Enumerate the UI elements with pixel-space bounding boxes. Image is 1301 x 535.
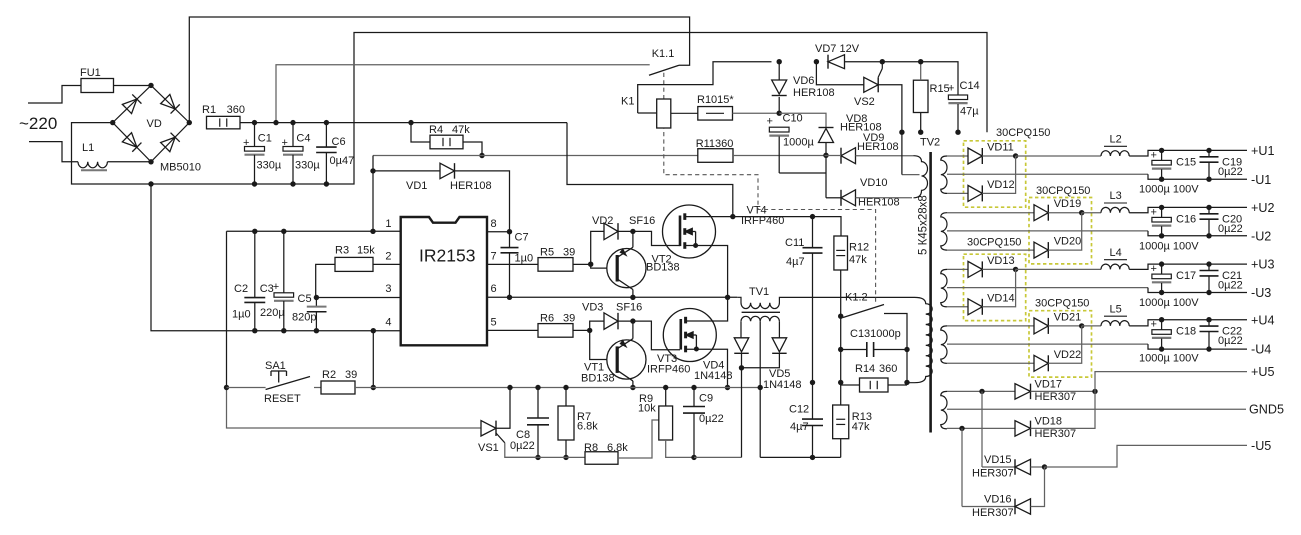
diode VD11 <box>968 148 982 164</box>
node C20 top <box>1206 205 1211 210</box>
svg-text:VD13: VD13 <box>987 255 1015 267</box>
wire VT3 drain lead to midpoint <box>686 297 728 321</box>
wire VD8 column down to VD10 <box>825 155 827 198</box>
svg-text:VD14: VD14 <box>987 292 1015 304</box>
svg-text:TV2: TV2 <box>920 137 940 149</box>
wire VD9 anode to aux winding top <box>856 155 914 157</box>
wire winding 5 bottom lead <box>947 427 1015 429</box>
svg-text:+U2: +U2 <box>1251 201 1274 215</box>
node C22 top <box>1206 317 1211 322</box>
svg-text:SA1: SA1 <box>265 360 286 372</box>
resistor R15 <box>913 80 928 112</box>
svg-text:HER307: HER307 <box>972 468 1014 480</box>
wire R7 top <box>565 388 567 407</box>
svg-text:39: 39 <box>345 369 357 381</box>
diode VD12 <box>968 185 982 201</box>
svg-text:1: 1 <box>385 218 391 230</box>
svg-text:R5: R5 <box>540 247 554 259</box>
svg-text:+U4: +U4 <box>1251 313 1274 327</box>
wire L1 to bridge bottom <box>107 161 151 163</box>
svg-text:VD10: VD10 <box>860 177 888 189</box>
wire VD1 anode <box>373 170 440 172</box>
svg-text:+: + <box>282 137 288 149</box>
node C1 top <box>252 120 257 125</box>
wire mains top stub <box>28 86 81 104</box>
wire C10 top node to VD8 cathode <box>779 113 826 127</box>
svg-text:+U1: +U1 <box>1251 144 1274 158</box>
wire minus rail U1 <box>1148 174 1247 179</box>
wire VD10 cathode bend <box>826 197 841 199</box>
wire R3 left bend to pin3 node <box>316 264 335 297</box>
wire R4 branch from +rail <box>411 123 430 142</box>
node VD3 VT1 junction <box>630 318 635 323</box>
wire pin8 stub <box>487 231 510 233</box>
wire pin7 row to R5 <box>487 263 538 265</box>
transformer TV1 secondary winding <box>741 316 779 321</box>
svg-text:VD6: VD6 <box>793 75 814 87</box>
svg-text:1000µ: 1000µ <box>783 137 814 149</box>
node VD8 VD9 R11 junction <box>823 153 828 158</box>
wire VD19 cathode to join <box>1048 212 1081 214</box>
svg-text:C7: C7 <box>515 232 529 244</box>
capacitor C11 <box>812 217 814 248</box>
wire R4 output down to VCC feed row <box>463 142 482 156</box>
svg-text:L3: L3 <box>1110 190 1122 202</box>
svg-text:~220: ~220 <box>19 114 57 133</box>
inductor L1 <box>78 162 107 168</box>
node COM riser top <box>371 328 376 333</box>
wire VD21 cathode to join <box>1048 325 1081 327</box>
node C17 bottom <box>1159 290 1164 295</box>
wire VD4 column down to sense row <box>741 368 743 458</box>
svg-text:VD: VD <box>147 118 162 130</box>
svg-text:BD138: BD138 <box>646 262 680 274</box>
svg-text:VD2: VD2 <box>592 215 613 227</box>
svg-text:+: + <box>1151 319 1157 331</box>
wire plus rail riser to VT4 drain <box>567 123 733 217</box>
svg-text:R2: R2 <box>322 369 336 381</box>
svg-text:MB5010: MB5010 <box>160 162 201 174</box>
wire K1.2 column left <box>840 316 842 382</box>
node VT4 drain junction <box>730 214 735 219</box>
node C9 top <box>691 385 696 390</box>
node C8 bottom <box>535 455 540 460</box>
svg-text:1N4148: 1N4148 <box>694 370 733 382</box>
svg-text:C1: C1 <box>258 133 272 145</box>
svg-text:VD16: VD16 <box>984 494 1012 506</box>
svg-text:5: 5 <box>491 317 497 329</box>
wire VD2 cathode to gate jog VT4 <box>618 231 680 245</box>
node C21 bottom <box>1206 290 1211 295</box>
wire winding 1 top lead to VD11 <box>947 155 968 157</box>
svg-text:R1: R1 <box>202 104 216 116</box>
diode VD9 <box>841 148 856 164</box>
svg-text:-U4: -U4 <box>1251 343 1271 357</box>
svg-text:C16: C16 <box>1176 213 1196 225</box>
svg-text:L4: L4 <box>1110 247 1122 259</box>
node C13 right <box>904 347 909 352</box>
resistor R12 <box>834 236 848 270</box>
node C11 top <box>810 214 815 219</box>
svg-text:+U5: +U5 <box>1251 365 1274 379</box>
thyristor VS1 <box>481 421 496 436</box>
diode VD7 zener 12V <box>828 55 845 69</box>
wire riser VCC feed to VD1 and pin 8 rail <box>372 156 374 232</box>
inductor L2 <box>1101 151 1129 156</box>
svg-text:HER108: HER108 <box>793 87 835 99</box>
resistor R3 <box>335 257 373 271</box>
node midpoint junction <box>725 295 730 300</box>
dashed box 30CPQ150 module VD21 VD22 <box>1029 311 1092 377</box>
svg-text:+: + <box>948 83 954 95</box>
capacitor C15 <box>1161 150 1163 160</box>
svg-text:RESET: RESET <box>264 393 301 405</box>
wire pin5 row to R6 <box>487 329 538 331</box>
svg-text:0µ22: 0µ22 <box>1218 280 1243 292</box>
node VS2 gate on rail <box>880 59 885 64</box>
fuse FU1 <box>81 79 114 93</box>
resistor R6 <box>538 324 573 338</box>
capacitor C10 <box>769 127 789 132</box>
wire rectifier 4 output to inductor L5 <box>1082 325 1101 327</box>
capacitor C2 <box>254 231 256 297</box>
svg-text:HER108: HER108 <box>450 180 492 192</box>
svg-text:VS1: VS1 <box>478 442 499 454</box>
svg-text:VS2: VS2 <box>854 96 875 108</box>
svg-text:47k: 47k <box>849 254 867 266</box>
svg-text:0µ22: 0µ22 <box>1218 223 1243 235</box>
resistor R9 <box>659 406 673 440</box>
inductor L5 <box>1101 321 1129 326</box>
node C11 C12 junction <box>810 380 815 385</box>
transformer TV2 core <box>929 152 932 433</box>
winding TV2 output 1 <box>941 156 947 193</box>
svg-text:VD21: VD21 <box>1054 311 1082 323</box>
transformer TV2 primary winding <box>907 297 932 382</box>
wire winding 2 top lead to VD19 <box>947 212 1034 214</box>
transistor VT1 BD138 <box>632 321 634 339</box>
svg-text:+: + <box>1151 206 1157 218</box>
svg-text:IR2153: IR2153 <box>419 246 475 266</box>
node bridge right vertex <box>187 120 192 125</box>
node VD1 anode junction <box>370 168 375 173</box>
capacitor C6 <box>325 123 327 147</box>
diode VD14 <box>968 299 982 315</box>
wire VD7 rail right segment <box>845 62 959 95</box>
wire VD8 anode to feed node <box>825 143 827 156</box>
bridge diode top-right <box>161 94 180 113</box>
wire pin1 rail left bend down to SA1 and VS1 anode row <box>226 231 228 387</box>
wire VD16 cathode bend up <box>1031 467 1045 507</box>
capacitor C17 <box>1161 264 1163 274</box>
node VT1 emitter to common row <box>630 385 635 390</box>
capacitor C1 <box>254 123 256 147</box>
node C4 top <box>290 120 295 125</box>
wire winding 4 bottom lead to VD22 <box>947 362 1034 364</box>
node C2 bottom <box>252 328 257 333</box>
svg-text:TV1: TV1 <box>749 286 769 298</box>
wire mains bottom stub <box>29 142 78 162</box>
svg-text:6.8k: 6.8k <box>607 442 628 454</box>
wire VD14 cathode bend to join <box>982 269 1015 306</box>
relay contact K1.2 blade <box>843 305 884 318</box>
node VD6 top rail <box>777 59 782 64</box>
svg-text:C10: C10 <box>783 113 803 125</box>
node C20 bottom <box>1206 233 1211 238</box>
wire R9 top <box>665 388 667 407</box>
wire VD11 cathode to join <box>982 155 1015 157</box>
svg-text:L1: L1 <box>82 142 94 154</box>
svg-text:VD11: VD11 <box>987 142 1014 154</box>
capacitor C9 <box>693 388 695 407</box>
wire pin3 row <box>316 297 400 299</box>
node bridge top vertex <box>148 83 153 88</box>
winding TV2 output 4 <box>941 326 947 363</box>
node C15 bottom <box>1159 177 1164 182</box>
svg-text:HER307: HER307 <box>1035 391 1077 403</box>
wire winding 3 center tap to jog <box>947 287 1148 289</box>
svg-text:VD15: VD15 <box>984 454 1012 466</box>
wire VD5 cathode bend to junction <box>742 353 780 368</box>
node R9 top <box>663 385 668 390</box>
capacitor C13 <box>841 349 867 351</box>
svg-text:1µ0: 1µ0 <box>232 309 251 321</box>
node rectifier 4 output <box>1079 323 1084 328</box>
svg-text:VD20: VD20 <box>1054 236 1082 248</box>
diode VD6 <box>778 62 780 80</box>
diode VD2 <box>604 223 618 240</box>
svg-text:10k: 10k <box>638 403 656 415</box>
dashed box 30CPQ150 module VD19 VD20 <box>1029 198 1092 264</box>
bridge diode bottom-left <box>122 133 141 152</box>
node C21 top <box>1206 261 1211 266</box>
svg-text:+: + <box>243 137 249 149</box>
node VD4 VD5 junction <box>739 365 744 370</box>
wire R7 bottom <box>565 440 567 457</box>
svg-text:C6: C6 <box>332 136 346 148</box>
svg-text:R14: R14 <box>855 363 875 375</box>
wire C12 R13 bottom row <box>760 456 841 458</box>
wire VD22 cathode bend to join <box>1048 326 1081 363</box>
node rectifier 3 output <box>1013 267 1018 272</box>
dashed relay linkage K1 <box>664 73 876 304</box>
diode VD22 <box>1034 355 1048 371</box>
wire aux winding center tap <box>902 174 920 176</box>
wire VD18 cathode bend up <box>1031 391 1096 428</box>
wire VD1 cathode to C7 column <box>455 171 510 232</box>
node common row end TV1 tap <box>758 385 763 390</box>
node VS1 riser junction <box>507 385 512 390</box>
wire pin6 row (half-bridge midpoint) <box>487 296 737 298</box>
wire VD15 row <box>982 466 1015 468</box>
svg-text:R4: R4 <box>429 124 443 136</box>
svg-text:-U1: -U1 <box>1251 173 1271 187</box>
svg-text:47k: 47k <box>452 124 470 136</box>
svg-text:HER307: HER307 <box>972 507 1014 519</box>
wire minus U5 to output <box>1045 445 1248 467</box>
wire COM riser pin4 rail to common row <box>372 331 374 388</box>
inductor L4 <box>1101 264 1129 269</box>
wire K1.2 right contact <box>884 314 907 350</box>
wire R10 output to C10 top <box>733 112 780 114</box>
node C15 top <box>1159 148 1164 153</box>
wire VS2 anode feed from VD7 node <box>816 62 863 85</box>
capacitor C8 <box>537 388 539 419</box>
diode VD21 <box>1034 318 1048 334</box>
wire VS2 cathode column <box>878 85 902 175</box>
svg-text:K1.2: K1.2 <box>845 292 868 304</box>
wire R15 bottom <box>920 113 922 133</box>
node C5 bottom <box>314 328 319 333</box>
wire winding 1 center tap to jog <box>947 173 1148 175</box>
svg-text:IRFP460: IRFP460 <box>647 364 690 376</box>
svg-text:VD22: VD22 <box>1054 349 1082 361</box>
diode VD16 <box>1015 499 1031 515</box>
wire L4 to plus rail U3 <box>1129 264 1247 269</box>
node pin1 rail riser junction <box>370 229 375 234</box>
diode VD18 <box>1015 421 1031 437</box>
wire L5 to plus rail U4 <box>1129 320 1247 326</box>
node C5 top pin3 <box>314 295 319 300</box>
node aux tap column on relay minus row <box>899 130 904 135</box>
svg-text:0µ22: 0µ22 <box>510 440 535 452</box>
node C18 bottom <box>1159 346 1164 351</box>
node C1 bottom <box>252 181 257 186</box>
resistor R1 <box>207 116 241 129</box>
wire C10 bottom to VD8 anode column <box>779 172 826 174</box>
node R7 bottom <box>563 455 568 460</box>
svg-text:HER307: HER307 <box>1035 428 1077 440</box>
svg-text:VD12: VD12 <box>987 179 1015 191</box>
svg-text:6: 6 <box>491 283 497 295</box>
svg-text:R6: R6 <box>540 313 554 325</box>
transformer TV1 primary winding <box>737 297 914 308</box>
wire DC-minus: bridge left vertex down to bottom rail, rail to riser, over top to right side <box>72 33 988 185</box>
svg-text:39: 39 <box>563 313 575 325</box>
node C8 top <box>535 385 540 390</box>
svg-text:BD138: BD138 <box>581 372 615 384</box>
node U5 plus junction <box>1092 389 1097 394</box>
wire R6 output <box>573 329 590 331</box>
svg-text:0µ47: 0µ47 <box>330 155 355 167</box>
node C22 bottom <box>1206 346 1211 351</box>
winding TV2 output 2 <box>941 213 947 250</box>
diode VD1 <box>440 163 455 179</box>
svg-text:GND5: GND5 <box>1249 403 1284 417</box>
svg-text:VD7 12V: VD7 12V <box>815 43 860 55</box>
dashed box 30CPQ150 module VD13 VD14 <box>964 254 1026 320</box>
node C4 bottom <box>290 181 295 186</box>
resistor R2 <box>321 381 355 394</box>
wire FU1 to bridge top <box>114 85 152 87</box>
svg-text:-U2: -U2 <box>1251 229 1271 243</box>
node C19 bottom <box>1206 177 1211 182</box>
resistor R7 <box>558 406 574 440</box>
wire SA1 left contact <box>227 387 266 389</box>
svg-text:47µ: 47µ <box>960 106 979 118</box>
svg-text:VD1: VD1 <box>406 180 427 192</box>
svg-text:R11360: R11360 <box>696 138 734 150</box>
node R15 top rail <box>918 59 923 64</box>
node VT3 source to common row <box>725 385 730 390</box>
wire R12 bottom to K1.2 column <box>840 270 842 316</box>
svg-text:R8: R8 <box>584 442 598 454</box>
wire K1.2 column right down <box>906 350 908 383</box>
svg-text:R3: R3 <box>335 245 349 257</box>
wire U5 plus to output <box>1095 372 1247 392</box>
svg-text:330µ: 330µ <box>295 160 320 172</box>
diode VD3 <box>604 313 618 330</box>
capacitor C21 <box>1208 264 1210 270</box>
svg-text:7: 7 <box>491 251 497 263</box>
wire VCC feed row right of R11 (gray) <box>733 155 825 157</box>
wire VD16 row <box>962 506 1015 508</box>
diode VD10 <box>841 190 856 206</box>
wire winding 5 top lead <box>947 390 1015 392</box>
wire VT4 source lead to midpoint <box>685 246 728 298</box>
svg-text:K1: K1 <box>621 96 634 108</box>
node C16 top <box>1159 205 1164 210</box>
wire winding 3 bottom lead to VD14 <box>947 306 968 308</box>
capacitor C22 <box>1208 320 1210 326</box>
svg-text:C15: C15 <box>1176 156 1196 168</box>
svg-text:C9: C9 <box>699 393 713 405</box>
relay coil K1 <box>638 112 657 114</box>
node R7 top <box>563 385 568 390</box>
svg-text:1000µ 100V: 1000µ 100V <box>1139 183 1199 195</box>
resistor R11 360 <box>698 149 733 163</box>
svg-text:R15: R15 <box>930 83 950 95</box>
node R14 right TV2 primary return <box>904 380 909 385</box>
resistor R14 <box>860 378 889 392</box>
svg-text:R1015*: R1015* <box>697 94 734 106</box>
node VD7 anode junction <box>814 59 819 64</box>
wire L2 to plus rail U1 <box>1129 150 1247 156</box>
svg-text:VD18: VD18 <box>1035 416 1063 428</box>
svg-text:3: 3 <box>385 283 391 295</box>
node R6 output junction <box>587 328 592 333</box>
wire common row main (gray) <box>510 387 760 389</box>
wire VD2 branch up <box>591 231 604 264</box>
node bottom rail to COM riser <box>148 181 153 186</box>
dashed box 30CPQ150 module VD11 VD12 <box>964 141 1026 207</box>
node C10 top <box>777 111 782 116</box>
svg-text:0µ22: 0µ22 <box>1218 166 1243 178</box>
svg-text:30CPQ150: 30CPQ150 <box>1036 185 1090 197</box>
wire drain row to C11 R12 <box>733 217 841 236</box>
svg-text:-U3: -U3 <box>1251 286 1271 300</box>
wire VCC feed row left segment (gray) <box>373 155 698 157</box>
svg-text:30CPQ150: 30CPQ150 <box>1035 298 1089 310</box>
svg-text:C12: C12 <box>789 404 809 416</box>
node VD16 branch <box>959 426 964 431</box>
wire TV1 secondary left end to VD4 <box>740 321 742 338</box>
wire winding 2 bottom lead to VD20 <box>947 249 1034 251</box>
node VT2 emitter to pin6 row <box>630 295 635 300</box>
svg-text:4µ7: 4µ7 <box>786 256 805 268</box>
wire SA1 to R2 <box>314 387 321 389</box>
bridge diode top-left <box>122 94 141 113</box>
wire R9 bottom <box>666 440 694 457</box>
wire K1 riser to VD6 rail <box>638 62 772 113</box>
node C6 top <box>324 120 329 125</box>
winding TV2 output 3 <box>941 269 947 306</box>
svg-text:SF16: SF16 <box>629 215 655 227</box>
svg-text:L5: L5 <box>1110 303 1122 315</box>
svg-text:5 К45х28х8: 5 К45х28х8 <box>918 195 930 255</box>
wire VD4 cathode to junction <box>741 353 743 368</box>
node VD15 branch <box>979 389 984 394</box>
